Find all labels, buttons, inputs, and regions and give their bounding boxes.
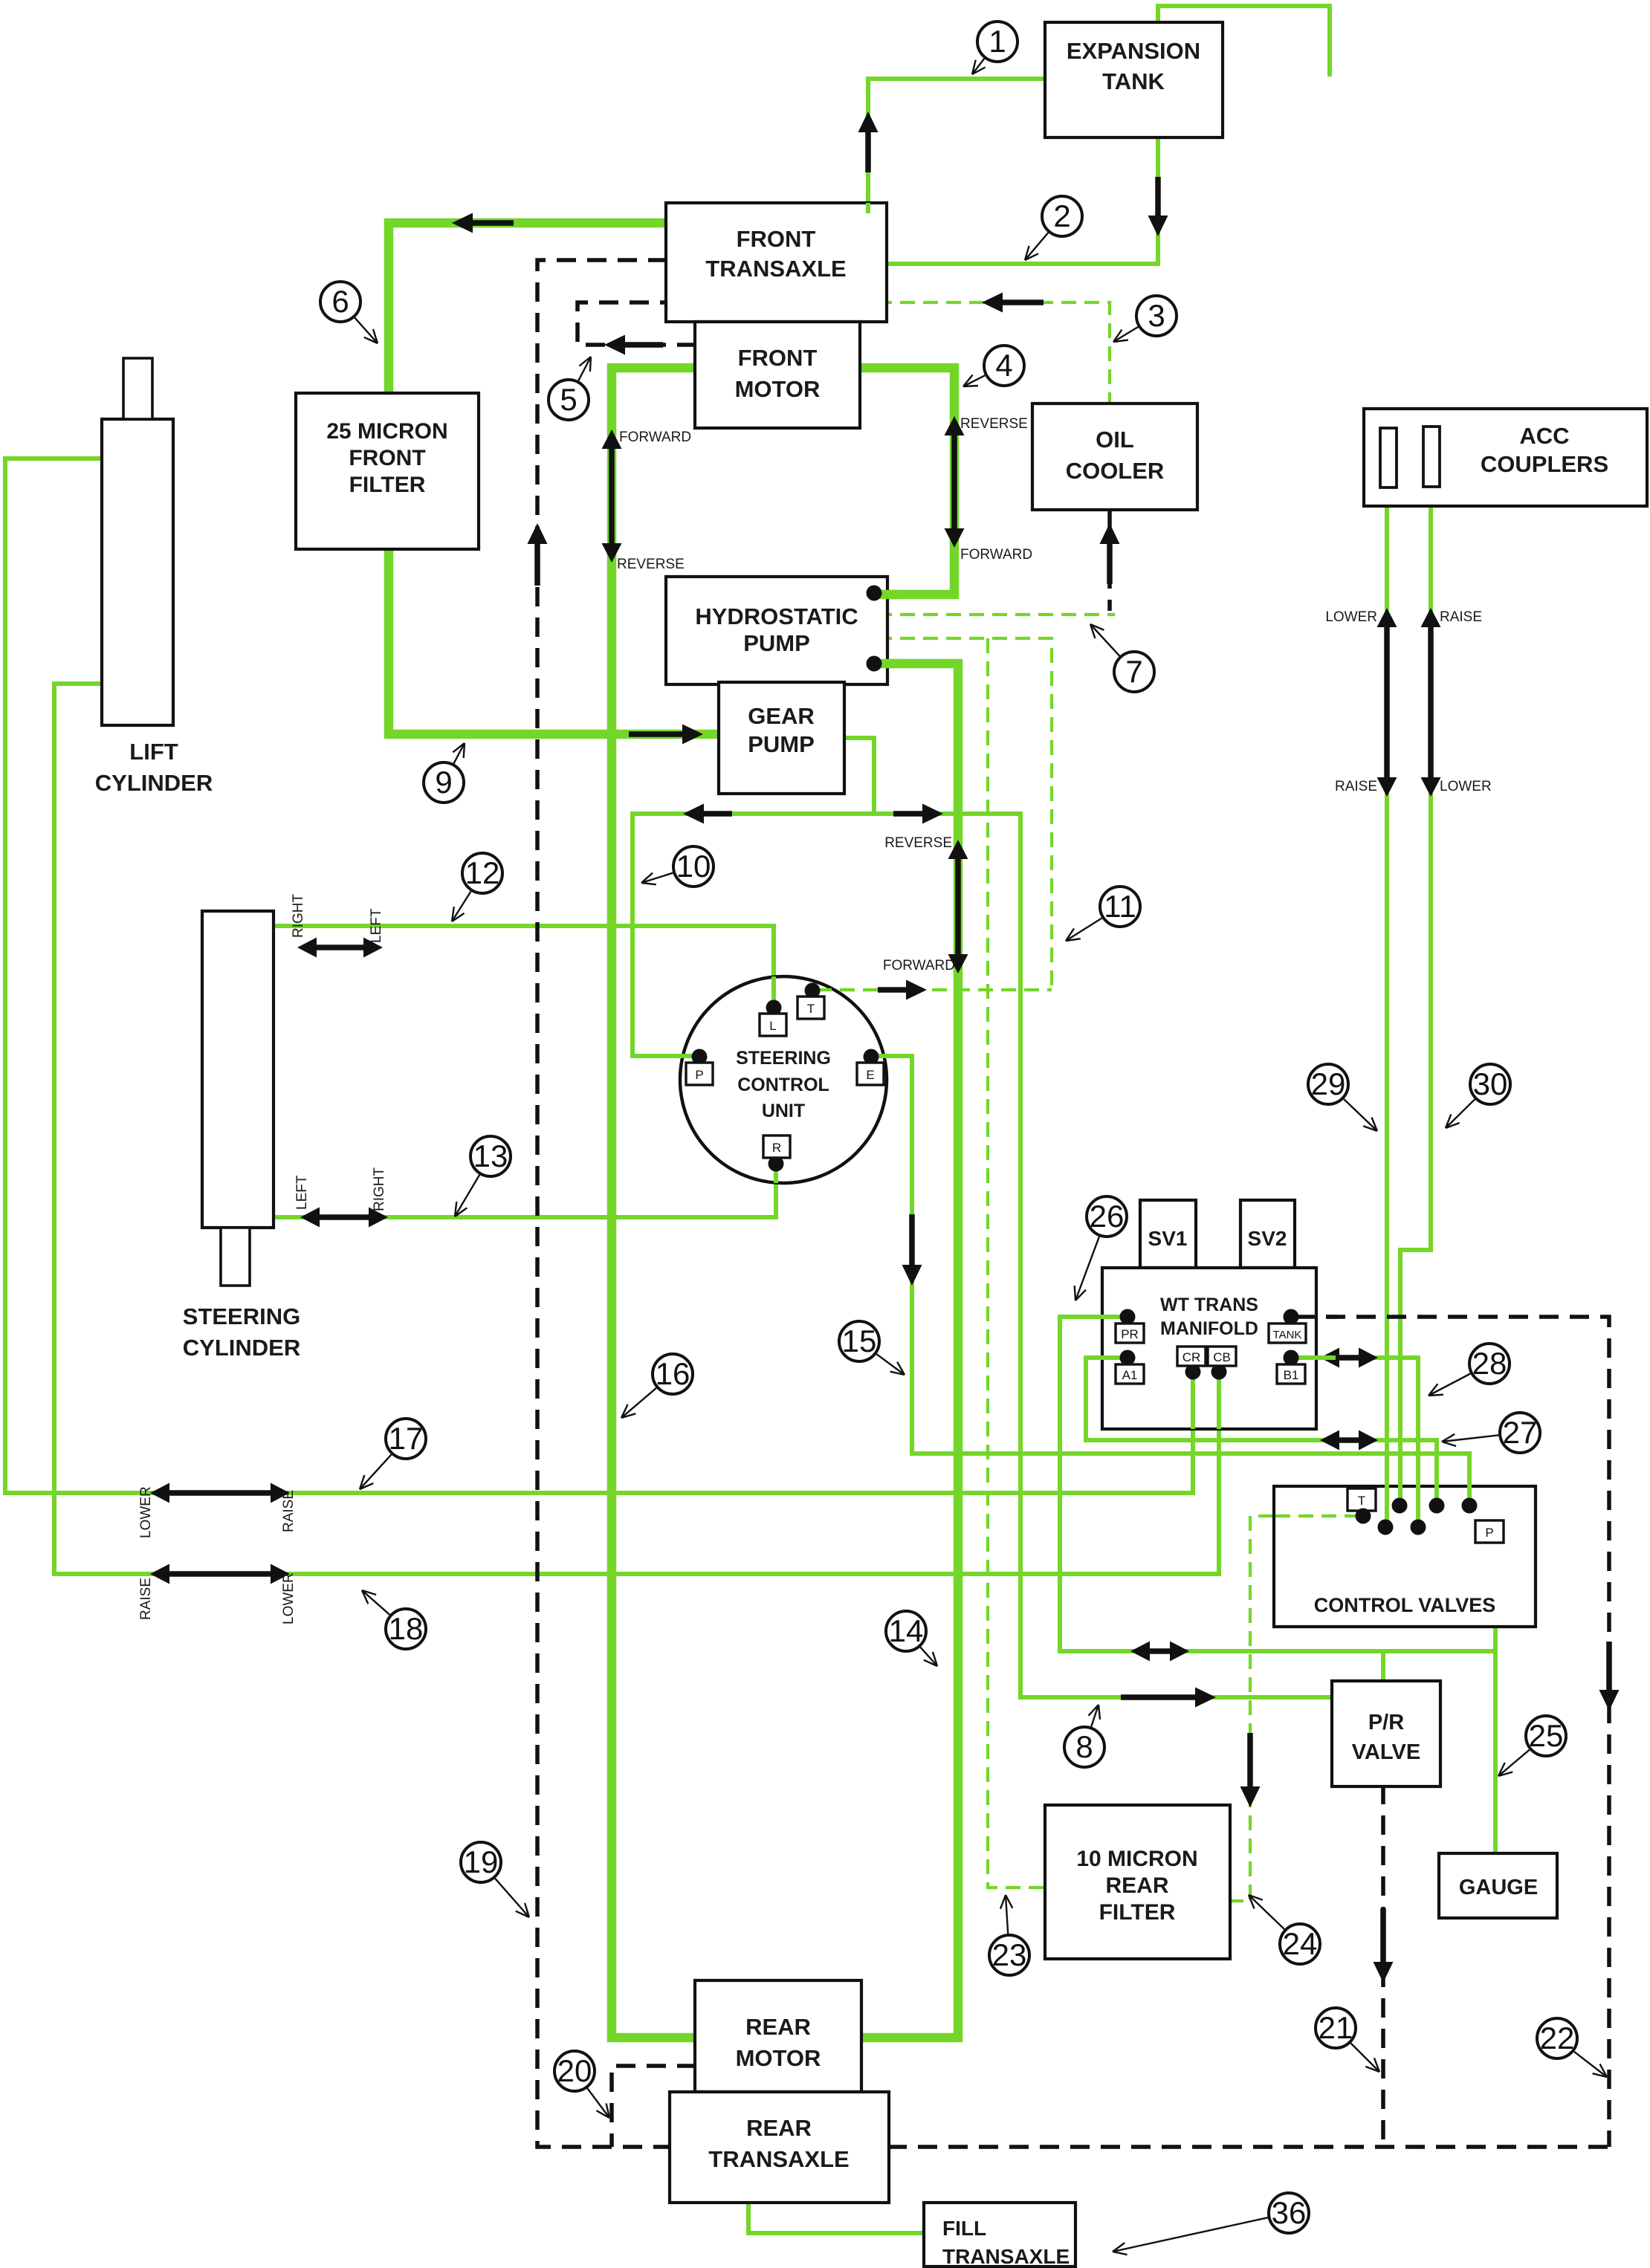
svg-text:9: 9 — [435, 765, 452, 800]
svg-text:11: 11 — [1104, 889, 1136, 924]
svg-text:25 MICRON: 25 MICRON — [326, 419, 447, 444]
svg-text:10: 10 — [676, 849, 711, 884]
svg-text:RIGHT: RIGHT — [291, 894, 306, 939]
callout 30 — [1446, 1099, 1475, 1128]
svg-text:CYLINDER: CYLINDER — [95, 770, 213, 796]
rear motor box — [695, 1980, 861, 2092]
svg-text:REAR: REAR — [745, 2014, 811, 2040]
svg-text:23: 23 — [992, 1937, 1027, 1972]
arrow right on line-8 — [1121, 1694, 1195, 1700]
wire line-13 steering cylinder to SCU R port — [272, 1164, 776, 1217]
svg-text:FILTER: FILTER — [1099, 1900, 1176, 1925]
wire manifold B1 to control valves — [1291, 1358, 1418, 1527]
svg-text:LIFT: LIFT — [129, 739, 178, 765]
double arrow acc line-30 — [1428, 627, 1434, 777]
svg-text:T: T — [1358, 1494, 1365, 1508]
svg-text:8: 8 — [1075, 1729, 1093, 1764]
manifold port CR — [1185, 1364, 1201, 1380]
svg-text:LEFT: LEFT — [294, 1175, 310, 1210]
callout 1 — [972, 59, 984, 74]
wire manifold A1 to control valves — [1086, 1358, 1437, 1506]
svg-text:REVERSE: REVERSE — [960, 416, 1028, 432]
front motor box — [695, 322, 860, 428]
svg-text:REAR: REAR — [1105, 1873, 1168, 1898]
double arrow line-18 — [169, 1571, 271, 1577]
svg-text:FORWARD: FORWARD — [883, 958, 955, 973]
arrow right on line-9 — [629, 731, 682, 737]
double arrow forward-reverse front motor — [609, 449, 615, 543]
svg-text:29: 29 — [1311, 1066, 1346, 1101]
svg-text:REVERSE: REVERSE — [617, 557, 685, 572]
svg-text:E: E — [866, 1068, 874, 1082]
svg-text:A1: A1 — [1122, 1368, 1138, 1382]
wire branch to P/R valve top — [1381, 1651, 1385, 1682]
wire manifold PR to control valves / gauge — [1060, 1317, 1495, 1651]
callout 9 — [454, 743, 465, 763]
svg-text:OIL: OIL — [1096, 427, 1134, 453]
expansion tank box — [1045, 22, 1223, 137]
manifold TANK dashed stub — [1295, 1315, 1338, 1319]
callout 15 — [876, 1354, 905, 1375]
double arrow line-17 — [169, 1490, 271, 1496]
svg-text:RIGHT: RIGHT — [372, 1167, 387, 1212]
wire line-6 front transaxle to front filter (thick) — [389, 223, 667, 395]
wire line-3 oil cooler to front transaxle (green dashed) — [877, 302, 1110, 405]
svg-text:MOTOR: MOTOR — [735, 376, 821, 402]
callout 27 — [1442, 1435, 1498, 1442]
callout 29 — [1344, 1099, 1377, 1131]
svg-text:STEERING: STEERING — [183, 1303, 300, 1329]
svg-text:PUMP: PUMP — [743, 630, 810, 656]
svg-text:LOWER: LOWER — [138, 1486, 154, 1538]
svg-text:SV1: SV1 — [1148, 1227, 1188, 1250]
svg-text:LOWER: LOWER — [1440, 779, 1492, 794]
control valves inlet stubs — [1385, 1483, 1389, 1527]
wire control valves to gauge (line-25) — [1493, 1627, 1498, 1853]
fill transaxle box — [924, 2203, 1075, 2267]
arrow left on line-5 — [625, 342, 663, 348]
wire line-8 gear pump junction to P/R valve — [874, 814, 1330, 1697]
manifold port B1 — [1284, 1350, 1299, 1366]
10 micron rear filter box — [1045, 1805, 1230, 1959]
svg-text:FILL: FILL — [942, 2217, 986, 2240]
svg-text:MANIFOLD: MANIFOLD — [1160, 1318, 1258, 1339]
wire line-16 front motor forward to rear motor (thick) — [612, 368, 696, 2038]
callout 11 — [1066, 918, 1102, 942]
rear transaxle box — [670, 2092, 889, 2203]
wire line-12 steering cylinder to SCU L port — [272, 926, 774, 1008]
svg-text:14: 14 — [889, 1613, 924, 1648]
callout 22 — [1574, 2052, 1607, 2077]
sv1 box — [1140, 1200, 1196, 1268]
svg-text:RAISE: RAISE — [1440, 609, 1482, 625]
steering cylinder — [202, 911, 274, 1228]
svg-text:20: 20 — [557, 2053, 592, 2088]
wire line-7 hydrostatic pump to oil cooler (green dashed) — [877, 613, 1115, 616]
wire ACC coupler 2 to control valves (line-30) — [1400, 487, 1431, 1506]
manifold PR stub — [1099, 1315, 1127, 1319]
svg-text:WT TRANS: WT TRANS — [1160, 1295, 1258, 1315]
wire oil cooler bottom vent (black dashed) — [1107, 508, 1112, 611]
control valves top dots — [1378, 1520, 1394, 1535]
manifold B1 stub — [1291, 1355, 1336, 1360]
svg-text:RAISE: RAISE — [1335, 779, 1377, 794]
callout 16 — [621, 1388, 656, 1418]
SCU P stub — [680, 1054, 699, 1058]
svg-text:13: 13 — [473, 1138, 508, 1173]
svg-text:GAUGE: GAUGE — [1459, 1876, 1538, 1899]
svg-text:12: 12 — [465, 855, 500, 890]
manifold port A1 — [1120, 1350, 1136, 1366]
svg-text:TANK: TANK — [1273, 1329, 1302, 1341]
svg-text:STEERING: STEERING — [736, 1048, 831, 1069]
wire SCU T port drain (green dashed) — [817, 988, 1052, 991]
svg-text:MOTOR: MOTOR — [736, 2045, 821, 2071]
svg-text:4: 4 — [995, 348, 1012, 383]
svg-text:30: 30 — [1473, 1066, 1508, 1101]
double arrow reverse line-4 — [951, 435, 957, 528]
acc couplers box — [1364, 409, 1647, 506]
svg-text:15: 15 — [842, 1323, 877, 1358]
oil cooler box — [1032, 404, 1197, 510]
double arrow PR line — [1150, 1648, 1170, 1654]
callout 8 — [1091, 1705, 1099, 1727]
manifold port PR — [1120, 1309, 1136, 1325]
control valves box — [1274, 1486, 1536, 1627]
svg-text:VALVE: VALVE — [1352, 1740, 1420, 1764]
svg-text:REAR: REAR — [746, 2115, 812, 2141]
svg-text:EXPANSION: EXPANSION — [1067, 38, 1200, 64]
svg-text:26: 26 — [1090, 1199, 1125, 1234]
svg-text:CONTROL: CONTROL — [737, 1075, 829, 1095]
callout 6 — [355, 318, 378, 343]
callout 36 — [1113, 2217, 1268, 2252]
wire line-18 lift cylinder base to manifold CB — [54, 684, 1219, 1574]
SCU E stub — [871, 1054, 887, 1058]
svg-text:PR: PR — [1121, 1327, 1139, 1341]
wire line-14 hydrostatic pump forward to rear motor (thick) — [860, 664, 958, 2038]
svg-text:27: 27 — [1503, 1415, 1538, 1450]
hydrostatic pump box — [666, 577, 887, 684]
svg-text:5: 5 — [560, 382, 577, 417]
svg-text:CR: CR — [1182, 1350, 1201, 1364]
double arrow manifold A1 line — [1339, 1437, 1359, 1443]
svg-text:TRANSAXLE: TRANSAXLE — [705, 256, 846, 282]
callout 17 — [360, 1454, 392, 1489]
svg-text:28: 28 — [1472, 1346, 1507, 1381]
25 micron front filter box — [296, 393, 479, 549]
svg-text:FRONT: FRONT — [349, 446, 425, 470]
svg-text:36: 36 — [1272, 2195, 1307, 2230]
wire line-21-22 rear transaxle vent line (black dashed) — [887, 2145, 1609, 2149]
wire line-1 expansion tank top loop — [1158, 6, 1330, 77]
svg-text:25: 25 — [1529, 1718, 1564, 1753]
control valves port P — [1475, 1520, 1504, 1543]
wire ACC coupler 1 to control valves (line-29) — [1385, 487, 1389, 1527]
svg-text:19: 19 — [464, 1844, 499, 1879]
arrow up on line-19 dashed — [534, 544, 540, 586]
wire line-1 tank to front transaxle — [868, 79, 1045, 211]
callout 2 — [1025, 233, 1048, 260]
callout 14 — [920, 1647, 937, 1666]
svg-text:7: 7 — [1125, 654, 1142, 689]
wire line-11 hydrostatic pump case drain (green dashed) — [877, 638, 1052, 989]
callout 5 — [578, 357, 591, 380]
wire manifold TANK to vent (black dashed, line-22) — [1295, 1317, 1609, 2147]
wire rear transaxle to fill transaxle — [748, 2201, 925, 2233]
steering control unit circle — [680, 976, 887, 1183]
callout 24 — [1249, 1895, 1284, 1929]
svg-text:24: 24 — [1283, 1926, 1318, 1961]
svg-text:P/R: P/R — [1368, 1711, 1404, 1734]
svg-text:T: T — [807, 1002, 815, 1016]
svg-text:P: P — [1485, 1526, 1493, 1540]
wire line-10 gear pump to SCU P port — [632, 738, 874, 1056]
double arrow acc line-29 — [1384, 627, 1390, 777]
wt trans manifold box — [1102, 1268, 1316, 1429]
double arrow manifold B1 — [1339, 1355, 1359, 1361]
gauge box — [1439, 1853, 1557, 1918]
arrow left on line-10 — [704, 811, 732, 817]
svg-text:RAISE: RAISE — [138, 1578, 154, 1620]
p/r valve box — [1332, 1681, 1440, 1786]
svg-text:16: 16 — [656, 1356, 690, 1391]
wire line-4 front motor to hydrostatic pump reverse (thick) — [858, 368, 954, 594]
svg-text:LOWER: LOWER — [281, 1572, 297, 1624]
svg-text:CONTROL VALVES: CONTROL VALVES — [1314, 1594, 1496, 1616]
svg-text:L: L — [769, 1019, 776, 1033]
svg-text:HYDROSTATIC: HYDROSTATIC — [695, 603, 858, 629]
svg-text:22: 22 — [1540, 2021, 1575, 2055]
callout 10 — [641, 873, 673, 883]
callout 12 — [452, 892, 471, 922]
double arrow forward line-14 — [955, 859, 961, 954]
manifold port CB — [1211, 1364, 1227, 1380]
SCU port E — [864, 1049, 879, 1065]
svg-text:GEAR: GEAR — [748, 703, 815, 729]
svg-text:FILTER: FILTER — [349, 473, 426, 497]
arrow up into oil cooler — [1107, 544, 1113, 584]
control valves T dashed stub — [1275, 1514, 1360, 1517]
svg-text:SV2: SV2 — [1248, 1227, 1287, 1250]
double arrow line-13 — [320, 1214, 369, 1220]
callout 18 — [362, 1590, 389, 1615]
svg-text:6: 6 — [331, 284, 349, 319]
callout 25 — [1498, 1750, 1530, 1776]
front transaxle top stub — [866, 203, 870, 213]
SCU port L — [766, 1000, 782, 1016]
svg-text:LOWER: LOWER — [1325, 609, 1377, 625]
svg-text:10 MICRON: 10 MICRON — [1076, 1847, 1197, 1871]
sv2 box — [1240, 1200, 1295, 1268]
arrow right on SCU T dashed — [878, 987, 906, 993]
arrow left on line-6 — [473, 220, 514, 226]
arrow down on T drain dashed — [1247, 1733, 1253, 1786]
wire line-5 front motor to front transaxle (black dashed) — [577, 302, 696, 345]
callout 23 — [1006, 1895, 1008, 1934]
arrow down from expansion tank — [1155, 177, 1161, 216]
SCU R stub — [774, 1164, 778, 1183]
SCU port R — [769, 1156, 784, 1172]
svg-text:CYLINDER: CYLINDER — [183, 1335, 300, 1361]
control valves port T — [1347, 1488, 1376, 1511]
svg-text:FORWARD: FORWARD — [619, 430, 691, 445]
manifold CR-CB stubs — [1191, 1372, 1195, 1429]
lift cylinder — [102, 419, 173, 725]
callout 19 — [495, 1879, 529, 1917]
callout 26 — [1075, 1237, 1099, 1300]
svg-text:FRONT: FRONT — [738, 345, 818, 371]
svg-text:TRANSAXLE: TRANSAXLE — [708, 2146, 849, 2172]
svg-text:COUPLERS: COUPLERS — [1481, 451, 1608, 477]
arrow down on E line (line-15) — [909, 1214, 915, 1265]
wire line-15 SCU E port to control valves — [871, 1056, 1469, 1506]
arrow left on line-3 — [1003, 299, 1044, 305]
svg-text:21: 21 — [1319, 2010, 1353, 2045]
wire line-17 lift cylinder rod to manifold CR — [5, 459, 1193, 1493]
callout 7 — [1090, 624, 1119, 656]
svg-text:17: 17 — [389, 1421, 424, 1456]
wire P/R valve drain (black dashed, line-21) — [1381, 1785, 1385, 2147]
callout 3 — [1113, 327, 1138, 342]
svg-text:ACC: ACC — [1519, 423, 1569, 449]
svg-text:FRONT: FRONT — [737, 226, 816, 252]
svg-text:UNIT: UNIT — [762, 1101, 805, 1121]
SCU port T — [805, 983, 821, 999]
arrow right on line-10 branch — [893, 811, 922, 817]
svg-text:R: R — [772, 1141, 781, 1155]
hydrostatic pump port stubs — [874, 590, 898, 600]
arrow down on P/R drain dashed — [1380, 1908, 1386, 1962]
double arrow line-12 — [317, 945, 363, 950]
SCU port P — [692, 1049, 708, 1065]
manifold A1 stub — [1099, 1355, 1127, 1360]
svg-text:P: P — [695, 1068, 703, 1082]
svg-text:2: 2 — [1053, 198, 1070, 233]
svg-text:RAISE: RAISE — [281, 1490, 297, 1532]
svg-text:3: 3 — [1148, 298, 1165, 333]
wire line-23 drain to rear filter (green dashed) — [988, 638, 1046, 1888]
svg-text:18: 18 — [389, 1611, 424, 1646]
front transaxle box — [666, 203, 887, 322]
svg-text:LEFT: LEFT — [369, 908, 384, 943]
wire line-9 front filter to gear pump (thick) — [389, 548, 728, 734]
callout 4 — [963, 375, 985, 386]
wire line-20 rear motor vent (black dashed) — [612, 2066, 696, 2147]
svg-text:TANK: TANK — [1102, 68, 1165, 94]
gear pump box — [719, 682, 844, 794]
wire line-2 tank down to front transaxle right — [877, 136, 1158, 264]
arrow up on line-1 — [865, 132, 871, 172]
wire line-19 front transaxle vent to rear transaxle (black dashed) — [537, 260, 668, 2147]
svg-text:FORWARD: FORWARD — [960, 547, 1032, 563]
manifold port TANK — [1284, 1309, 1299, 1325]
wire line-24 rear filter to control valves T (green dashed) — [1229, 1516, 1360, 1901]
hydrostatic pump port dots — [867, 586, 882, 601]
svg-text:TRANSAXLE: TRANSAXLE — [942, 2245, 1070, 2268]
svg-text:PUMP: PUMP — [748, 731, 815, 757]
callout 20 — [587, 2088, 609, 2118]
callout 28 — [1429, 1374, 1470, 1396]
svg-text:COOLER: COOLER — [1066, 458, 1165, 484]
svg-text:B1: B1 — [1284, 1368, 1299, 1382]
svg-text:1: 1 — [989, 24, 1006, 59]
arrow down on line-22 dashed — [1606, 1642, 1612, 1690]
callout 13 — [455, 1175, 479, 1216]
SCU L stub — [771, 976, 776, 1008]
callout 21 — [1351, 2044, 1380, 2073]
svg-text:REVERSE: REVERSE — [884, 835, 952, 851]
svg-text:CB: CB — [1213, 1350, 1231, 1364]
SCU T stub (dashed) — [817, 988, 884, 991]
